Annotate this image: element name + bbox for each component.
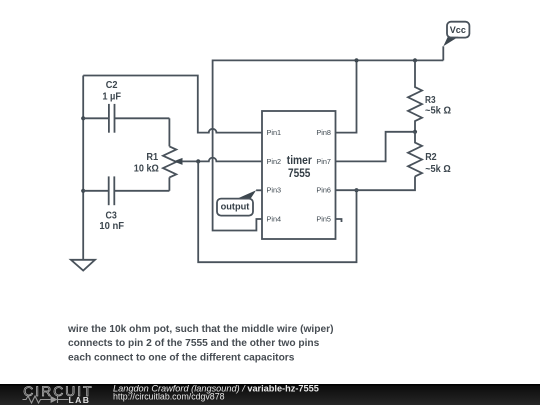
node: R3 top / top rail junction [413, 58, 417, 62]
svg-text:Pin8: Pin8 [316, 128, 331, 137]
resistor R2 [408, 132, 451, 177]
C3 left plate [108, 176, 110, 205]
svg-text:~5k Ω: ~5k Ω [425, 106, 451, 117]
svg-text:R2: R2 [425, 152, 437, 163]
wiper arrow of potentiometer R1 [173, 158, 182, 165]
C3 right plate [113, 176, 115, 205]
svg-text:timer: timer [287, 155, 312, 167]
C2 left lead [83, 117, 109, 119]
svg-text:Pin2: Pin2 [267, 157, 282, 166]
wire: top-left segment from ground rail to Pin1 with hop over Vcc rail [83, 76, 262, 133]
logo diode bar and lead [58, 396, 69, 403]
power flag Vcc [443, 22, 469, 61]
svg-text:output: output [221, 201, 251, 212]
footer credit text [113, 384, 319, 402]
wire: Pin4 to Vcc top rail (net Vcc) [213, 60, 444, 230]
node: junction of C2 left lead with ground rail [81, 116, 85, 120]
capacitor C2 [83, 80, 169, 133]
C3 right lead [114, 190, 169, 192]
R3 leads and zigzag body [408, 60, 422, 131]
svg-text:7555: 7555 [288, 168, 311, 180]
node: junction of C3 left lead with ground rail [81, 189, 85, 193]
output flag box [217, 199, 253, 216]
C2 left plate [108, 104, 110, 133]
Vcc flag box [447, 22, 469, 38]
net flag: output (node output) [217, 190, 256, 215]
svg-text:Pin3: Pin3 [267, 186, 282, 195]
logo: CIRCUIT LAB [23, 384, 94, 405]
timer IC U1 7555 [262, 111, 336, 239]
Vcc flag stem [442, 46, 444, 60]
logo diode triangle [51, 396, 58, 403]
svg-text:~5k Ω: ~5k Ω [425, 164, 451, 175]
svg-text:Pin6: Pin6 [316, 186, 331, 195]
svg-text:R3: R3 [425, 95, 436, 106]
C2 right lead [115, 117, 170, 119]
annotation note text [67, 324, 333, 364]
capacitor C3 [83, 176, 169, 231]
svg-text:10 nF: 10 nF [99, 221, 124, 232]
resistor R3 [408, 60, 451, 131]
R1 zigzag body [163, 146, 176, 177]
svg-text:10 kΩ: 10 kΩ [134, 163, 159, 174]
svg-text:http://circuitlab.com/cdgv878: http://circuitlab.com/cdgv878 [113, 392, 225, 402]
svg-text:Vcc: Vcc [450, 25, 466, 36]
svg-text:connects to pin 2 of the 7555: connects to pin 2 of the 7555 and the ot… [68, 338, 320, 349]
node: Pin6 junction [354, 188, 358, 192]
footer bar [0, 384, 540, 405]
resistor R1 potentiometer 10k [134, 146, 177, 177]
ground symbol [71, 260, 95, 271]
wire: Pin7 to R3/R2 junction [336, 132, 416, 162]
Vcc flag tail [443, 37, 458, 47]
svg-text:wire the 10k ohm pot, such tha: wire the 10k ohm pot, such that the midd… [67, 324, 333, 335]
R2 lead and zigzag body [408, 132, 422, 177]
node: Pin8 / top rail junction [354, 58, 358, 62]
wire: R1 bottom to C3 right lead [168, 177, 170, 190]
IC body rectangle [262, 111, 336, 239]
node: wiper junction [196, 159, 200, 163]
svg-text:Pin4: Pin4 [267, 215, 282, 224]
wire: R2 bottom to Pin6 [336, 176, 416, 190]
svg-text:Pin7: Pin7 [316, 157, 331, 166]
svg-text:Pin1: Pin1 [267, 128, 282, 137]
wire: wiper to Pin2 with hop over Vcc rail [182, 158, 262, 162]
wire: Pin5 open stub [336, 219, 342, 222]
wire: wiper junction down, along bottom rail, up to Pin6 [198, 161, 356, 262]
svg-text:R1: R1 [146, 152, 158, 163]
output flag tail [237, 190, 256, 198]
C3 left lead [83, 190, 109, 192]
wire: Pin3 stub to output flag [256, 189, 262, 191]
wire: C2 right lead down to R1 top [168, 118, 170, 146]
wire: Pin8 up to Vcc top rail [336, 60, 357, 132]
svg-text:LAB: LAB [69, 395, 91, 405]
C2 right plate [114, 104, 116, 133]
svg-text:1 µF: 1 µF [102, 92, 121, 103]
wire: left ground rail (node GND) [82, 76, 84, 260]
svg-text:Pin5: Pin5 [316, 215, 331, 224]
node: R3/R2 junction [413, 130, 417, 134]
svg-text:each connect to one of the dif: each connect to one of the different cap… [68, 352, 295, 363]
logo resistor squiggle [23, 396, 51, 403]
svg-text:C2: C2 [106, 80, 118, 91]
